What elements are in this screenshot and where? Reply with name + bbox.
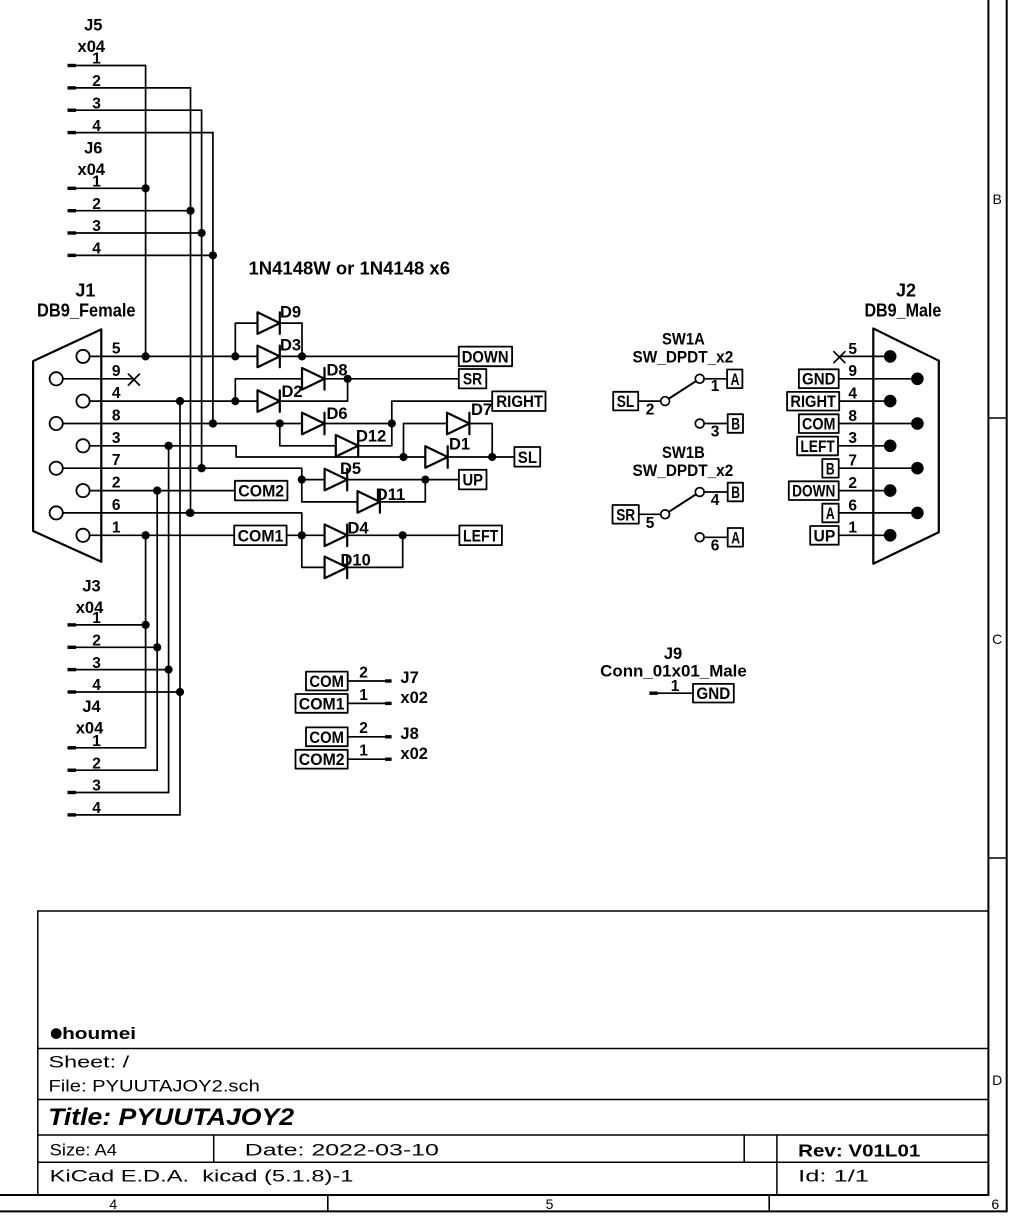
connector J4 pin 4 [68,800,181,817]
svg-text:5: 5 [546,1196,554,1212]
wire RIGHT net vertical and to label [392,401,492,446]
connector J2 body [873,329,939,564]
title block divider Date/empty [743,1135,745,1162]
title block KiCad field [50,1166,354,1185]
svg-text:LEFT: LEFT [463,527,498,545]
svg-text:SW1A: SW1A [662,331,705,349]
switch SW1A reference [662,331,705,349]
svg-text:SW_DPDT_x2: SW_DPDT_x2 [633,462,734,480]
sheet border right outer line [1006,0,1008,1211]
svg-text:Title: PYUUTAJOY2: Title: PYUUTAJOY2 [48,1104,295,1131]
label SL [514,447,540,467]
wire D9 branch [235,323,302,356]
svg-text:4: 4 [92,677,101,694]
svg-text:J5: J5 [84,17,102,35]
svg-text:3: 3 [112,430,121,447]
sheet zone number 5 [546,1196,554,1212]
label COM2 at J8 [296,750,348,769]
connector J1 pin 5 [76,340,120,363]
connector J1 pin 2 [76,475,120,498]
svg-text:C: C [992,631,1002,647]
svg-text:1: 1 [92,51,101,68]
title block Sheet field [49,1053,130,1072]
svg-text:UP: UP [814,527,836,545]
wire J1 pin3 to J3.3/J4.3 vertical [165,442,173,793]
connector J7 pin 1 [348,687,392,705]
svg-text:KiCad E.D.A. kicad (5.1.8)-1: KiCad E.D.A. kicad (5.1.8)-1 [50,1166,354,1185]
connector J4 value x04 [76,719,104,737]
wire D8 anode branch [235,379,302,401]
connector J6 value x04 [78,161,106,179]
wire J1 pin4 row (SR net) [90,397,258,405]
svg-text:2: 2 [112,475,121,492]
svg-text:Id: 1/1: Id: 1/1 [798,1166,869,1185]
svg-text:1: 1 [671,678,680,695]
svg-text:D1: D1 [449,436,470,454]
sheet zone divider B/C [988,417,1006,419]
label COM1 at J7 [296,694,348,713]
wire D10 anode branch [302,535,325,567]
svg-text:3: 3 [92,655,101,672]
svg-text:3: 3 [92,218,101,235]
svg-text:2: 2 [359,720,368,737]
label GND at J9 [693,684,734,703]
svg-text:File: PYUUTAJOY2.sch: File: PYUUTAJOY2.sch [49,1077,260,1096]
svg-text:2: 2 [848,475,857,492]
svg-text:SL: SL [617,393,635,411]
svg-text:B: B [993,191,1002,207]
svg-text:5: 5 [112,340,121,357]
no-connect J2 pin5 [834,352,845,363]
svg-text:DOWN: DOWN [462,348,509,366]
svg-text:houmei: houmei [62,1024,136,1043]
connector J5 reference [84,17,102,35]
svg-text:2: 2 [92,755,101,772]
svg-text:5: 5 [848,341,857,358]
connector J2 pin 7 [839,453,924,475]
svg-text:Rev: V01L01: Rev: V01L01 [798,1141,920,1161]
svg-text:J7: J7 [400,669,418,687]
wire J5.1/J6.1 to J1 pin5 net vertical [142,66,150,361]
wire J1 pin7 row (UP net) [63,464,306,484]
label SL at SW1A [613,392,638,411]
svg-text:COM2: COM2 [299,751,345,769]
svg-text:D3: D3 [280,337,301,355]
connector J3 pin 4 [68,677,185,696]
label UP at J2 [810,526,839,545]
connector J6 pin 4 [68,241,217,260]
svg-text:1: 1 [711,378,720,395]
connector J1 pin 8 [50,408,121,431]
wire D11 anode branch [302,480,358,502]
connector J3 pin 1 [68,610,150,629]
wire D6 cathode to RIGHT junction [325,419,396,427]
svg-text:COM2: COM2 [238,483,284,501]
svg-text:D2: D2 [282,383,303,401]
wire D11 cathode up to UP net [380,480,425,502]
label DOWN at J2 [789,481,839,500]
connector J3 pin 3 [68,655,173,674]
connector J2 pin 9 [839,363,924,385]
label RIGHT [492,391,545,411]
connector J2 reference [896,281,916,301]
label UP [459,470,487,490]
connector J1 pin 6 [50,497,121,520]
label B at J2 [822,459,838,478]
title block row line above Sheet [38,1048,989,1050]
connector J6 pin 2 [68,196,195,215]
svg-text:A: A [731,529,740,547]
svg-text:COM: COM [309,673,344,691]
svg-text:6: 6 [112,497,121,514]
svg-text:SW1B: SW1B [662,444,705,462]
connector J1 pin 4 [76,385,120,408]
svg-text:J2: J2 [896,281,916,301]
svg-text:1: 1 [92,174,101,191]
connector J8 reference [400,725,418,743]
connector J7 value x02 [400,689,428,707]
svg-text:7: 7 [848,453,857,470]
svg-text:B: B [826,460,835,478]
label COM at J2 [799,414,839,433]
svg-text:J4: J4 [82,698,101,716]
switch SW1A pin 2 [638,397,669,419]
sheet border bottom outer line [0,1210,1007,1212]
svg-text:1: 1 [359,687,368,704]
sheet zone number 6 [991,1196,999,1212]
svg-text:UP: UP [463,472,484,490]
svg-text:J1: J1 [75,280,95,300]
svg-text:GND: GND [696,685,730,703]
svg-text:3: 3 [848,430,857,447]
svg-text:x02: x02 [400,689,428,707]
label LEFT [459,526,502,546]
svg-text:J9: J9 [664,645,682,663]
connector J8 pin 2 [348,720,392,738]
label B at SW1A [728,414,743,433]
connector J2 pin 4 [839,386,896,408]
title block divider Rev column [776,1135,778,1195]
title block row line above Title [38,1099,989,1101]
svg-text:1: 1 [359,743,368,760]
connector J2 pin 8 [839,408,924,430]
connector J7 reference [400,669,418,687]
svg-text:DB9_Female: DB9_Female [37,300,136,320]
sheet zone tick bottom 4/5 [327,1195,329,1211]
svg-text:B: B [731,484,740,502]
svg-text:D6: D6 [327,405,348,423]
label SR [459,369,487,389]
connector J2 pin 1 [839,520,897,542]
switch SW1B value SW_DPDT_x2 [633,462,734,480]
diode D6 [302,405,348,434]
svg-text:SR: SR [463,371,482,389]
wire D12 cathode to RIGHT vertical [358,445,392,447]
svg-text:2: 2 [92,633,101,650]
connector J9 pin 1 [649,678,693,695]
connector J1 reference [75,280,95,300]
connector J1 pin 3 [76,430,120,453]
title block File field [49,1077,260,1096]
wire J1 pin1 row to COM1 label [90,531,235,539]
label DOWN [459,347,512,367]
svg-text:A: A [826,505,835,523]
sheet zone letter D [992,1072,1002,1088]
svg-text:Date: 2022-03-10: Date: 2022-03-10 [245,1140,439,1159]
svg-text:4: 4 [109,1196,117,1212]
title block Size field [50,1140,117,1159]
title block Rev field [798,1141,920,1161]
svg-text:D: D [992,1072,1002,1088]
svg-text:1: 1 [92,733,101,750]
label RIGHT at J2 [787,392,839,411]
svg-text:x02: x02 [400,745,428,763]
label COM2 (J1 row) [235,481,288,501]
connector J5 value x04 [78,38,106,56]
svg-text:SW_DPDT_x2: SW_DPDT_x2 [633,349,734,367]
svg-text:J6: J6 [84,140,102,158]
svg-text:RIGHT: RIGHT [790,393,836,411]
wire D7 anode branch [404,424,448,458]
switch SW1B pin 4 [695,488,727,509]
svg-text:1: 1 [848,520,857,537]
switch SW1A lever [669,381,696,398]
wire D8 cathode to SR label [325,375,459,383]
wire D10 cathode up to LEFT net [347,535,403,567]
svg-text:COM: COM [309,729,344,747]
connector J2 pin 3 [838,430,897,452]
connector J5 pin 3 [68,95,202,112]
diode D3 [258,337,302,368]
svg-text:GND: GND [802,371,836,389]
svg-text:4: 4 [711,492,720,509]
diode D1 [425,436,470,468]
connector J1 pin 7 [50,452,121,475]
svg-text:3: 3 [92,778,101,795]
sheet zone number 4 [109,1196,117,1212]
label COM at J8 [306,727,348,746]
diode D10 [325,552,371,579]
svg-text:2: 2 [92,73,101,90]
connector J5 pin 1 [68,51,146,68]
wire J1 pin2 row (COM2 net) [90,487,235,495]
svg-text:7: 7 [112,452,121,469]
connector J2 pin 2 [839,475,897,497]
connector J2 value DB9_Male [864,301,941,321]
svg-text:D5: D5 [340,460,361,478]
title block Date field [245,1140,439,1159]
no-connect J1 pin9 [128,374,139,385]
wire J1 pin1 to J3.1/J4.1 vertical [142,531,150,748]
switch SW1B reference [662,444,705,462]
connector J4 pin 3 [68,778,169,795]
sheet zone tick bottom 5/6 [768,1195,770,1211]
svg-text:Sheet: /: Sheet: / [49,1053,130,1072]
wire D7 cathode down to SL net [469,424,496,462]
connector J8 value x02 [400,745,428,763]
svg-text:COM1: COM1 [238,527,284,545]
svg-text:SR: SR [616,506,635,524]
connector J8 pin 1 [348,743,392,761]
svg-text:8: 8 [112,408,121,425]
svg-text:DOWN: DOWN [792,483,835,501]
connector J4 pin 1 [68,733,146,750]
svg-text:8: 8 [848,408,857,425]
connector J6 pin 1 [68,174,150,193]
svg-text:D12: D12 [356,428,386,446]
connector J6 pin 3 [68,218,206,237]
connector J4 reference [82,698,101,716]
svg-text:9: 9 [112,363,121,380]
label A at SW1A [727,370,742,389]
label A at SW1B [728,528,743,547]
svg-text:6: 6 [848,497,857,514]
wire COM1 label to D4 [287,534,325,536]
svg-text:4: 4 [112,385,121,402]
title block Title field [48,1104,295,1131]
svg-text:DB9_Male: DB9_Male [864,301,941,321]
label COM1 (J1 row) [234,526,286,546]
connector J3 value x04 [76,599,104,617]
connector J6 reference [84,140,102,158]
svg-text:6: 6 [991,1196,999,1212]
svg-text:1: 1 [112,519,121,536]
connector J1 value DB9_Female [37,300,136,320]
svg-text:2: 2 [646,402,655,419]
wire D12 anode branch [280,424,336,446]
svg-text:A: A [731,371,740,389]
wire J5.2/J6.2 to J1 pin6 net vertical [186,88,194,517]
wire D2 cathode up to SR net [280,379,348,401]
wire D1 cathode to SL label [448,456,515,458]
sheet border right inner line [987,0,989,1195]
svg-text:COM1: COM1 [299,695,345,713]
switch SW1A pin 1 [695,374,727,394]
wire J5.3/J6.3 to J1 pin7 net vertical [198,110,206,472]
svg-text:J3: J3 [82,578,100,596]
wire J5.4/J6.4 to J1 pin8 net vertical [209,133,217,428]
title block comment houmei [51,1024,136,1043]
connector J3 reference [82,578,100,596]
sheet zone letter B [993,191,1002,207]
connector J7 pin 2 [348,664,392,682]
connector J1 body [33,329,101,561]
connector J5 pin 2 [68,73,191,90]
svg-text:LEFT: LEFT [800,438,834,456]
title block divider Size/Date [213,1135,215,1162]
title block Id field [798,1166,869,1185]
switch SW1B pin 6 [695,533,727,554]
switch SW1B pin 5 [639,510,670,532]
diode D12 [336,428,386,457]
diode D9 [258,304,302,334]
diode D7 [447,401,492,434]
label A at J2 [822,504,838,523]
switch SW1A value SW_DPDT_x2 [633,349,734,367]
svg-text:9: 9 [848,363,857,380]
wire J1 pin3 row (SL net) [90,442,426,461]
svg-text:D9: D9 [280,304,301,322]
svg-text:Size: A4: Size: A4 [50,1140,117,1159]
diode D4 [325,520,370,547]
svg-text:4: 4 [848,386,857,403]
connector J9 value Conn_01x01_Male [600,663,747,681]
label LEFT at J2 [797,437,838,456]
svg-text:4: 4 [92,118,101,135]
wire D4 cathode to LEFT label [347,531,459,539]
svg-text:RIGHT: RIGHT [496,393,543,411]
label B at SW1B [728,483,743,502]
sheet zone divider C/D [988,857,1006,859]
connector J1 pin 1 [76,519,120,542]
connector J5 pin 4 [68,118,213,135]
svg-text:4: 4 [92,241,101,258]
svg-text:2: 2 [92,196,101,213]
svg-text:J8: J8 [400,725,418,743]
diode D11 [358,486,406,513]
diode D2 [258,383,303,412]
svg-text:1: 1 [92,610,101,627]
diode D8 [302,362,348,390]
title block row line below Title [38,1134,989,1136]
connector J9 reference [664,645,682,663]
svg-text:4: 4 [92,800,101,817]
wire J1 pin5 row (DOWN net) [90,352,459,360]
wire J1 pin6 row (COM1 net) [63,509,306,540]
note 1N4148W or 1N4148 x6 [249,259,451,279]
wire J1 pin9 stub [63,378,134,380]
connector J1 pin 9 [50,363,121,386]
svg-text:2: 2 [359,664,368,681]
connector J2 pin 6 [839,497,924,519]
wire D5 cathode to UP label [347,476,459,484]
svg-text:1N4148W or 1N4148 x6: 1N4148W or 1N4148 x6 [249,259,451,279]
svg-text:6: 6 [711,537,720,554]
label SR at SW1B [613,505,639,524]
switch SW1A pin 3 [695,419,727,440]
svg-text:SL: SL [518,449,537,467]
sheet border bottom inner line [0,1194,988,1196]
svg-text:3: 3 [711,424,720,441]
connector J2 pin 5 [839,341,896,363]
connector J4 pin 2 [68,755,158,772]
sheet zone letter C [992,631,1002,647]
label COM at J7 [306,672,348,691]
label GND at J2 [799,369,839,388]
wire J1 pin4 to J3.4/J4.4 vertical [176,397,184,815]
title block row line below Size/Date [38,1161,989,1163]
switch SW1B lever [669,494,696,511]
wire J1 pin8 row (RIGHT net) [63,419,302,427]
svg-text:D7: D7 [471,401,492,419]
svg-text:COM: COM [802,416,836,434]
svg-text:B: B [731,416,740,434]
wire D5 anode [302,479,325,481]
svg-text:5: 5 [646,515,655,532]
wire J1 pin2 to J3.2/J4.2 vertical [153,487,161,771]
diode D5 [325,460,361,490]
connector J3 pin 2 [68,633,162,652]
title block frame [38,911,989,1195]
svg-text:3: 3 [92,95,101,112]
